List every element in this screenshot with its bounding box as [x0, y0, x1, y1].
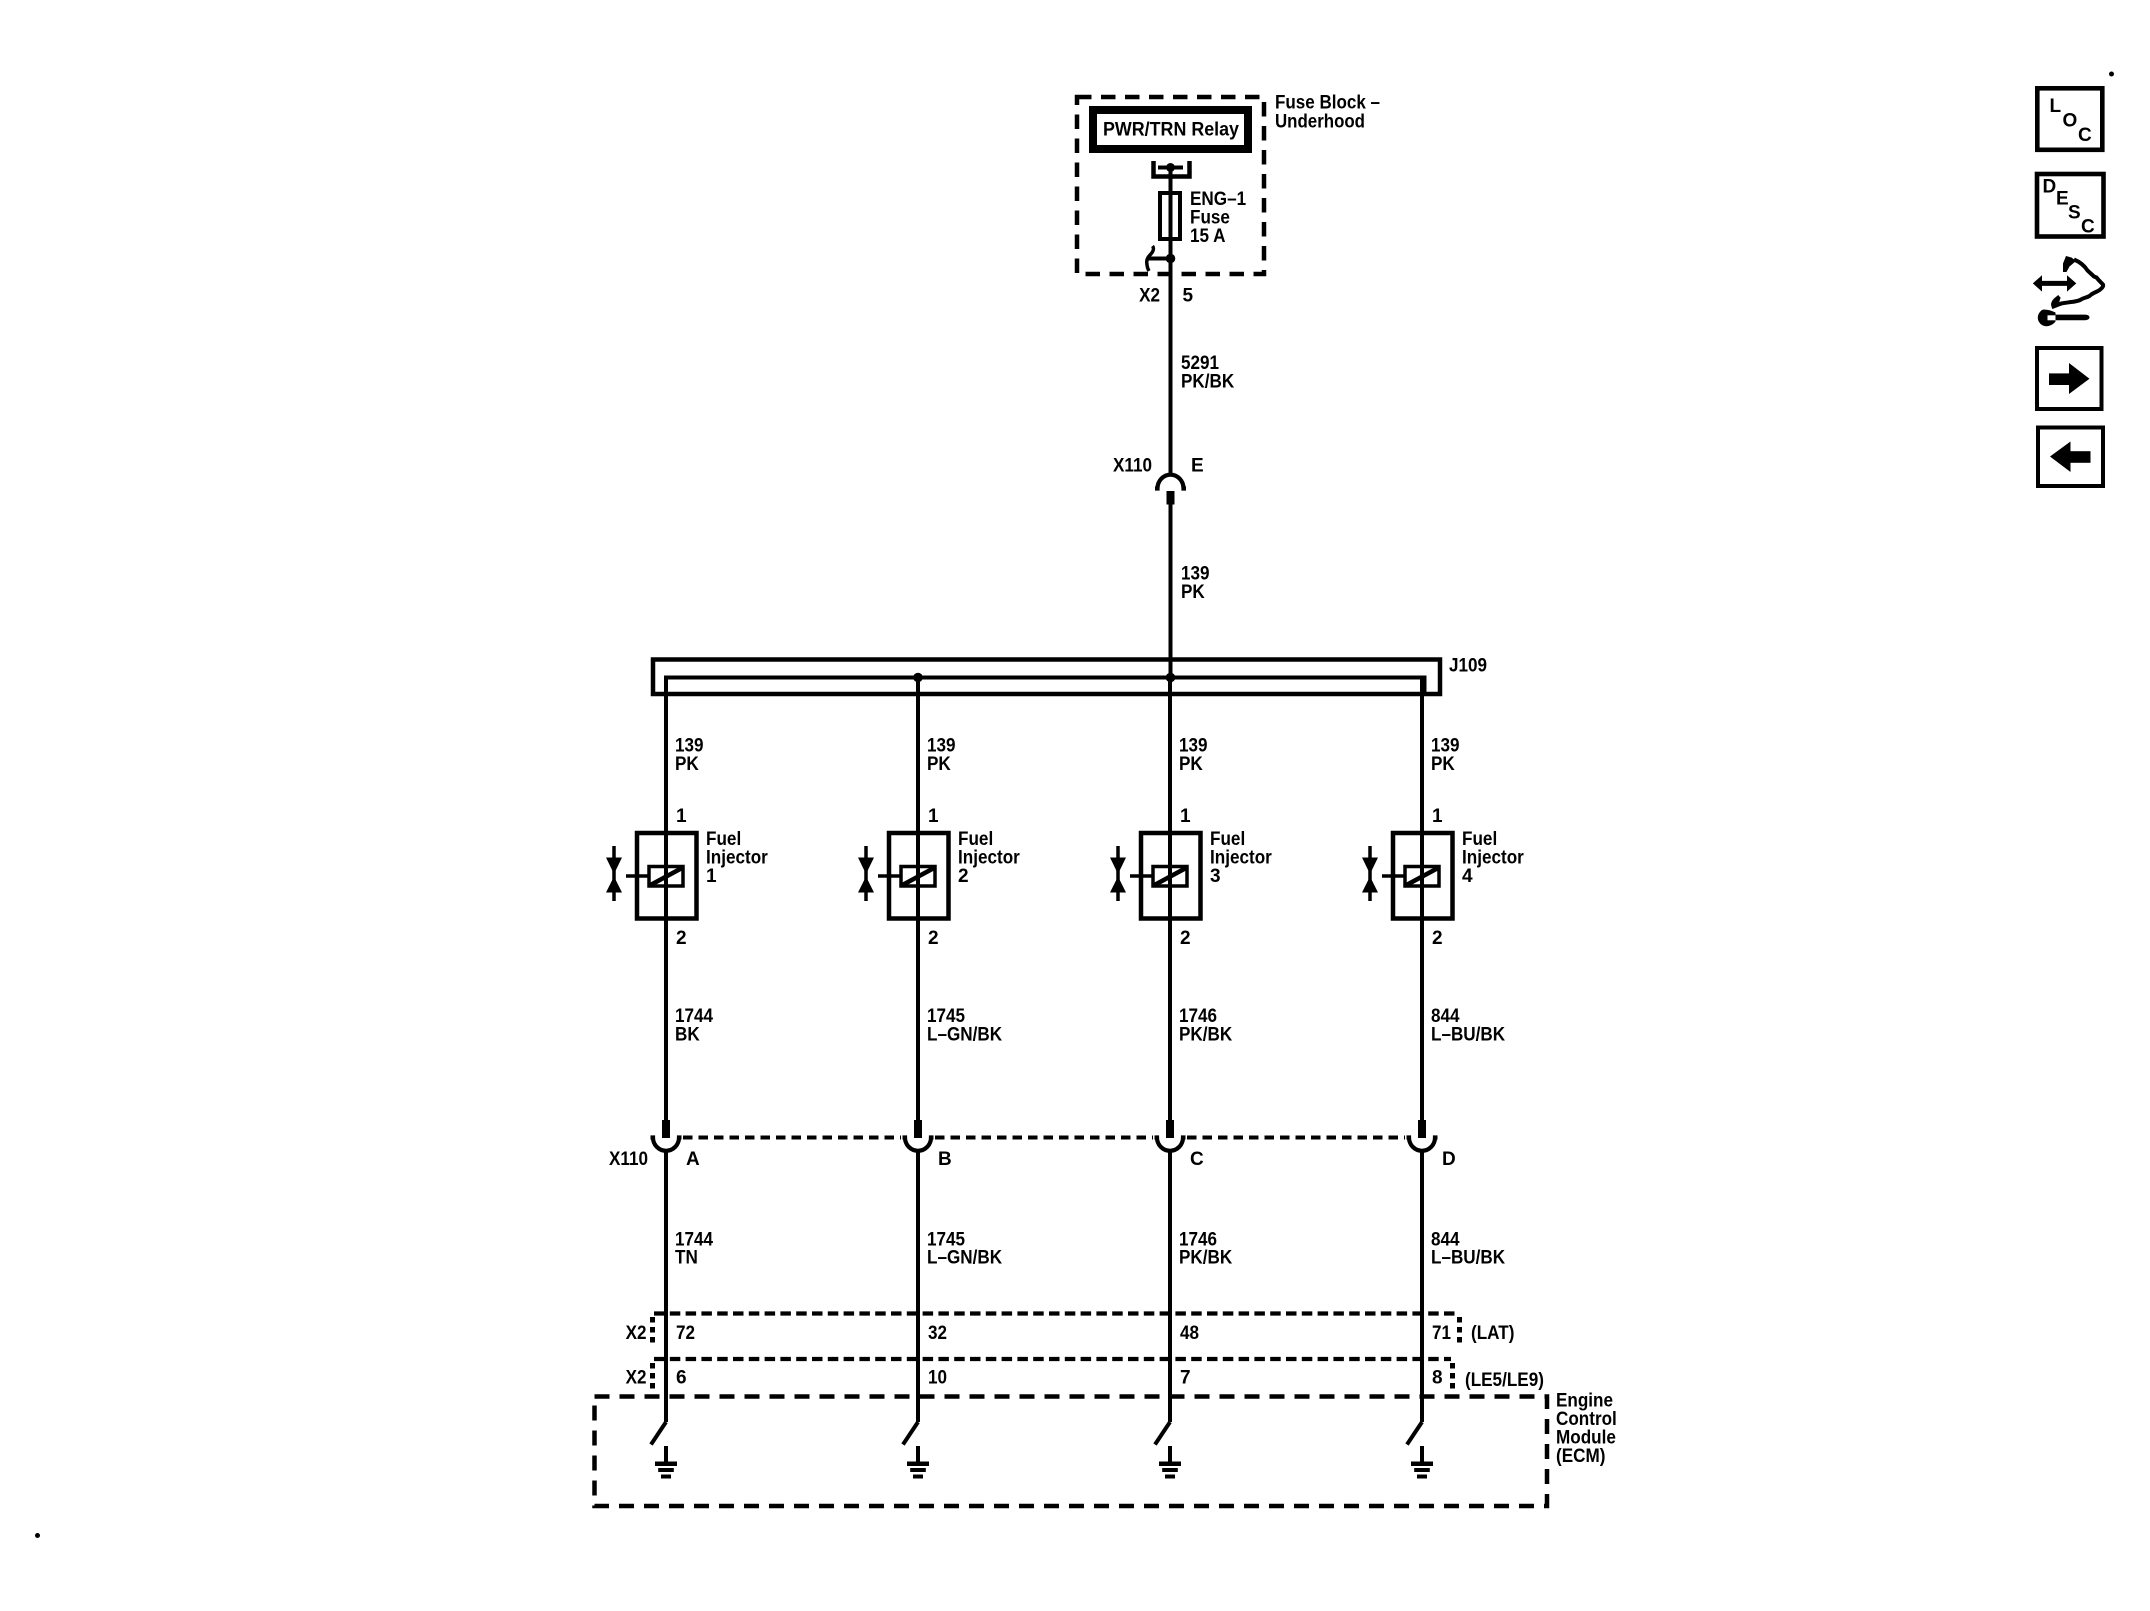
injector 2 stub to valve	[878, 874, 900, 878]
connector X110 male pin branch 2	[914, 1120, 922, 1138]
hand outline	[2053, 260, 2103, 307]
wire through injector 1	[664, 833, 668, 919]
next (right arrow) button	[2037, 348, 2102, 409]
injector 4 valve symbol	[1362, 846, 1378, 901]
wire X110 to ECM branch 2	[916, 1151, 920, 1423]
svg-text:PK: PK	[1181, 582, 1205, 603]
svg-text:PK/BK: PK/BK	[1179, 1025, 1232, 1046]
svg-text:L–BU/BK: L–BU/BK	[1431, 1025, 1505, 1046]
svg-text:PK/BK: PK/BK	[1179, 1248, 1232, 1269]
wire label 1744 upper	[675, 1006, 713, 1046]
connector X110 female cup branch 2	[903, 1138, 934, 1151]
wire through fuse	[1169, 193, 1173, 257]
fuel injector 2 label	[958, 829, 1020, 887]
splice J109 bus bar	[666, 678, 1425, 697]
wire label 139 PK branch 2	[927, 736, 956, 776]
connector X110 E labels	[1113, 456, 1204, 477]
splice J109 outer box	[653, 660, 1440, 695]
wire label 1746 lower	[1179, 1229, 1232, 1268]
hand/wrench tool icon	[2033, 256, 2103, 326]
connector X110 male pin branch 3	[1166, 1120, 1174, 1138]
svg-text:D: D	[2043, 177, 2057, 198]
svg-text:D: D	[1442, 1149, 1456, 1170]
X2 LE5/LE9 row left tick	[650, 1363, 655, 1392]
svg-text:X2: X2	[626, 1368, 647, 1389]
svg-text:2: 2	[1180, 928, 1191, 949]
wire injector 1 pin 2 to X110 branch 1	[664, 919, 668, 1121]
injector 2 valve symbol	[858, 846, 874, 901]
svg-text:15 A: 15 A	[1190, 226, 1226, 247]
svg-text:X2: X2	[1139, 286, 1160, 307]
connector X110 female cup branch 4	[1407, 1138, 1438, 1151]
stray dot bottom left	[35, 1533, 40, 1538]
fuel injector 2 box	[889, 833, 949, 919]
injector 3 stub to valve	[1130, 874, 1152, 878]
connector X110 male pin branch 4	[1418, 1120, 1426, 1138]
connector X110 E female cup	[1155, 475, 1186, 489]
svg-text:X110: X110	[609, 1149, 648, 1170]
svg-text:2: 2	[928, 928, 939, 949]
svg-text:PK: PK	[927, 754, 951, 775]
stray dot top right	[2109, 72, 2114, 77]
svg-text:3: 3	[1210, 866, 1221, 887]
junction dot relay output	[1166, 163, 1175, 172]
svg-text:X110: X110	[1113, 456, 1152, 477]
fuel injector 3 label	[1210, 829, 1272, 887]
svg-text:J109: J109	[1449, 656, 1487, 677]
svg-text:8: 8	[1432, 1368, 1443, 1389]
fuel injector 1 box	[637, 833, 697, 919]
wire J109 to fuel injector 3 pin 1	[1168, 678, 1172, 834]
injector 4 solenoid coil	[1405, 867, 1439, 887]
wire through injector 2	[916, 833, 920, 919]
svg-text:1: 1	[928, 806, 939, 827]
wire relay to fuse	[1169, 168, 1173, 194]
fuse label ENG-1 / Fuse / 15 A	[1190, 189, 1246, 247]
svg-text:4: 4	[1462, 866, 1473, 887]
wire through injector 4	[1420, 833, 1424, 919]
wrench	[2038, 310, 2090, 327]
svg-text:PK/BK: PK/BK	[1181, 372, 1234, 393]
wire injector 2 pin 2 to X110 branch 2	[916, 919, 920, 1121]
ground G1	[655, 1446, 677, 1479]
svg-text:TN: TN	[675, 1248, 698, 1269]
fuel injector 3 box	[1141, 833, 1201, 919]
ECM driver switch 1	[651, 1422, 666, 1445]
wire through injector 3	[1168, 833, 1172, 919]
wire label 844 upper	[1431, 1006, 1505, 1046]
svg-text:(LAT): (LAT)	[1471, 1323, 1514, 1344]
wire label 1745 upper	[927, 1006, 1002, 1046]
svg-text:X2: X2	[626, 1323, 647, 1344]
connector X2 pin 5 labels	[1139, 286, 1193, 307]
svg-text:C: C	[1190, 1149, 1204, 1170]
ECM driver switch 2	[903, 1422, 918, 1445]
ECM driver switch 4	[1407, 1422, 1422, 1445]
wire label 5291 PK/BK	[1181, 353, 1234, 393]
ECM label Engine Control Module (ECM)	[1556, 1391, 1617, 1468]
svg-text:Underhood: Underhood	[1275, 111, 1365, 132]
wire label 1746 upper	[1179, 1006, 1232, 1046]
wire label 139 PK branch 3	[1179, 736, 1208, 776]
DESC button	[2037, 174, 2104, 238]
LOC button	[2037, 88, 2102, 150]
svg-text:B: B	[938, 1149, 952, 1170]
wire label 139 PK branch 1	[675, 736, 704, 776]
wire J109 to fuel injector 4 pin 1	[1420, 678, 1424, 834]
wire label 139 PK trunk	[1181, 564, 1210, 604]
wire label 1744 lower	[675, 1229, 713, 1268]
svg-text:72: 72	[676, 1323, 695, 1344]
ECM connector row X2 (LAT) bottom dotted line	[654, 1357, 1451, 1361]
fuel injector 4 label	[1462, 829, 1524, 887]
svg-text:6: 6	[676, 1368, 687, 1389]
svg-text:PK: PK	[675, 754, 699, 775]
svg-text:O: O	[2063, 111, 2078, 132]
X110 harness dashed link C-D	[1187, 1136, 1405, 1140]
svg-text:PWR/TRN Relay: PWR/TRN Relay	[1103, 120, 1239, 141]
wire label 139 PK branch 4	[1431, 736, 1460, 776]
connector X110 female cup branch 1	[651, 1138, 682, 1151]
wire X110 E to J109 splice	[1169, 505, 1173, 680]
wire injector 3 pin 2 to X110 branch 3	[1168, 919, 1172, 1121]
wire X110 to ECM branch 1	[664, 1151, 668, 1423]
svg-text:(LE5/LE9): (LE5/LE9)	[1465, 1370, 1544, 1391]
ground G2	[907, 1446, 929, 1479]
svg-text:5: 5	[1183, 286, 1194, 307]
ECM driver switch 3	[1155, 1422, 1170, 1445]
connector X110 male pin branch 1	[662, 1120, 670, 1138]
wire X110 to ECM branch 4	[1420, 1151, 1424, 1423]
svg-text:S: S	[2068, 203, 2081, 224]
svg-text:10: 10	[928, 1368, 947, 1389]
svg-text:(ECM): (ECM)	[1556, 1446, 1605, 1467]
fuel injector 4 box	[1393, 833, 1453, 919]
junction dot J109 wire C	[1166, 673, 1176, 683]
svg-text:L: L	[2050, 96, 2062, 117]
svg-text:L–GN/BK: L–GN/BK	[927, 1248, 1002, 1269]
svg-text:PK: PK	[1179, 754, 1203, 775]
svg-text:32: 32	[928, 1323, 947, 1344]
svg-text:C: C	[2078, 125, 2092, 146]
svg-text:L–BU/BK: L–BU/BK	[1431, 1248, 1505, 1269]
connector X110 E male pin	[1167, 491, 1175, 505]
injector 1 stub to valve	[626, 874, 648, 878]
injector 1 valve symbol	[606, 846, 622, 901]
relay switch blade hook	[1147, 246, 1170, 271]
injector 4 stub to valve	[1382, 874, 1404, 878]
X2 LE5/LE9 row right tick	[1450, 1363, 1455, 1392]
svg-text:L–GN/BK: L–GN/BK	[927, 1025, 1002, 1046]
injector 1 solenoid coil	[649, 867, 683, 887]
fuse block - underhood dashed box	[1077, 97, 1264, 274]
fuse block label	[1275, 93, 1380, 133]
svg-text:1: 1	[706, 866, 717, 887]
svg-text:E: E	[2056, 189, 2069, 210]
injector 3 solenoid coil	[1153, 867, 1187, 887]
wire label 1745 lower	[927, 1229, 1002, 1268]
hand small tick	[2055, 298, 2061, 305]
svg-text:E: E	[1191, 456, 1204, 477]
ECM dashed box	[595, 1397, 1548, 1507]
junction dot below fuse	[1166, 254, 1176, 264]
ECM connector row X2 (LAT) top dotted line	[654, 1311, 1457, 1315]
junction dot J109 wire B	[913, 673, 923, 683]
wire X110 to ECM branch 3	[1168, 1151, 1172, 1423]
svg-text:71: 71	[1432, 1323, 1451, 1344]
fuel injector 1 label	[706, 829, 768, 887]
relay K (PWR/TRN Relay) box	[1093, 110, 1248, 149]
svg-text:BK: BK	[675, 1025, 700, 1046]
svg-text:7: 7	[1180, 1368, 1191, 1389]
svg-text:1: 1	[1432, 806, 1443, 827]
svg-text:C: C	[2081, 217, 2095, 238]
ground G3	[1159, 1446, 1181, 1479]
hand thumb wedge	[2063, 256, 2076, 272]
X110 harness dashed link B-C	[935, 1136, 1153, 1140]
relay contact terminal bracket	[1154, 161, 1190, 177]
wire J109 to fuel injector 2 pin 1	[916, 678, 920, 834]
injector 2 solenoid coil	[901, 867, 935, 887]
wire fuse block to X110 E	[1169, 259, 1173, 475]
double arrow	[2033, 275, 2077, 291]
injector 3 valve symbol	[1110, 846, 1126, 901]
wire J109 to fuel injector 1 pin 1	[664, 678, 668, 834]
X2 LAT row right tick	[1457, 1317, 1462, 1347]
X2 LAT row left tick	[650, 1317, 655, 1347]
previous (left arrow) button	[2038, 428, 2103, 487]
svg-text:1: 1	[1180, 806, 1191, 827]
wire label 844 lower	[1431, 1229, 1505, 1268]
svg-text:2: 2	[676, 928, 687, 949]
wire injector 4 pin 2 to X110 branch 4	[1420, 919, 1424, 1121]
svg-text:48: 48	[1180, 1323, 1199, 1344]
connector X110 female cup branch 3	[1155, 1138, 1186, 1151]
fuse ENG-1 symbol	[1160, 193, 1180, 239]
X110 harness dashed link A-B	[683, 1136, 901, 1140]
svg-text:2: 2	[958, 866, 969, 887]
svg-text:A: A	[686, 1149, 700, 1170]
svg-text:2: 2	[1432, 928, 1443, 949]
ground G4	[1411, 1446, 1433, 1479]
svg-text:PK: PK	[1431, 754, 1455, 775]
svg-text:1: 1	[676, 806, 687, 827]
